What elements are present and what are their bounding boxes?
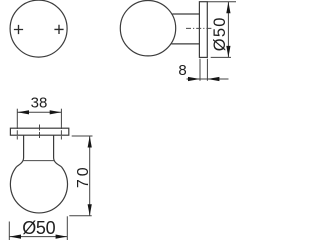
knob side view neck top line	[172, 13, 199, 15]
arrowhead 38 left	[18, 110, 30, 114]
dimension Ø50 bottom view: right extension line	[66, 216, 68, 240]
dimension 70: bottom extension line	[69, 215, 91, 217]
dimension Ø50 side view: vertical dimension line	[227, 2, 229, 58]
knob side view ball	[120, 1, 175, 56]
svg-text:38: 38	[31, 95, 48, 112]
svg-text:8: 8	[178, 62, 186, 79]
arrowhead 8 right (pointing left)	[207, 77, 219, 81]
dimension 38: extension line right (through plate)	[60, 109, 62, 125]
dimension 8: extension lines below plate	[200, 59, 207, 81]
dimension 8: dimension line	[187, 78, 229, 80]
dimension 70: vertical dimension line	[89, 136, 91, 216]
centerline dash through bottom view plate	[39, 125, 41, 140]
arrowhead 70 top (pointing up)	[88, 136, 92, 148]
arrowhead 70 bottom (pointing down)	[88, 204, 92, 216]
arrowhead bottom Ø50 left (pointing left)	[10, 235, 22, 239]
knob bottom view seam line	[23, 160, 54, 162]
dimension 38: extension line left (through plate)	[16, 109, 18, 125]
svg-text:Ø50: Ø50	[211, 16, 229, 51]
knob bottom view rose plate rectangle	[10, 128, 68, 135]
arrowhead 8 left (pointing right)	[188, 77, 200, 81]
arrowhead 38 right	[50, 110, 62, 114]
dimension Ø50 side view: bottom extension line	[211, 56, 231, 58]
dimension 70: top extension line	[72, 135, 93, 137]
rose plate front view circle	[10, 0, 67, 57]
dimension Ø50 side view: top extension line	[207, 1, 236, 3]
knob side view rose plate rectangle	[199, 2, 207, 58]
dimension Ø50 bottom view: dimension line	[9, 236, 67, 238]
knob bottom view neck left side with flare	[17, 135, 24, 166]
screw hole cross right	[54, 25, 63, 34]
knob bottom view neck right side with flare	[54, 135, 62, 166]
knob bottom view ball arc	[10, 167, 67, 213]
centerline dash-dot through side view plate	[186, 27, 212, 29]
dimension 38: dimension line	[17, 111, 61, 113]
arrowhead side Ø50 top (pointing up)	[226, 2, 230, 14]
svg-text:Ø50: Ø50	[22, 218, 55, 238]
dimension Ø50 bottom view: left extension line	[8, 222, 10, 240]
arrowhead bottom Ø50 right (pointing right)	[56, 235, 68, 239]
screw hole cross left	[14, 25, 23, 34]
arrowhead side Ø50 bottom (pointing down)	[226, 46, 230, 58]
knob side view neck bottom line	[171, 43, 199, 45]
svg-text:70: 70	[75, 164, 92, 188]
